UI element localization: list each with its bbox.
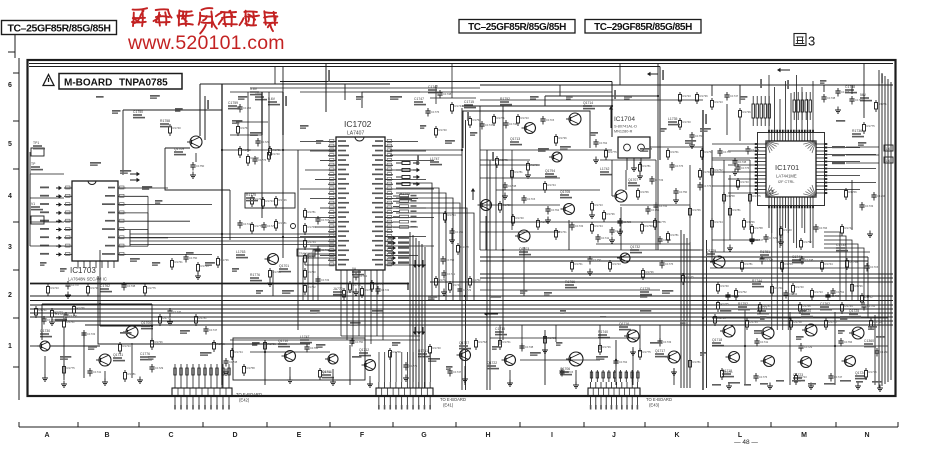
svg-text:R1775: R1775: [658, 220, 667, 224]
svg-text:R1736: R1736: [603, 345, 612, 349]
capacitor C1738: [799, 256, 813, 265]
svg-text:4: 4: [8, 193, 12, 200]
IC1701 labels: [775, 163, 799, 184]
svg-text:Q1731: Q1731: [113, 353, 123, 357]
microcontroller IC1701 QFP body: [758, 133, 825, 206]
transistor Q1794: [545, 152, 562, 177]
svg-text:C1762: C1762: [551, 208, 560, 212]
svg-text:R1744: R1744: [825, 262, 834, 266]
svg-text:LA7407: LA7407: [347, 131, 364, 137]
page number 48: [734, 439, 758, 446]
svg-text:R1752: R1752: [479, 340, 488, 344]
ground: [267, 280, 273, 287]
resistor R1736: [555, 134, 568, 146]
transistor Q1706: [560, 352, 583, 375]
transistor Q1710: [278, 339, 296, 362]
transistor Q1709: [174, 136, 202, 155]
svg-text:C1747: C1747: [209, 328, 218, 332]
svg-text:R1775: R1775: [686, 275, 695, 279]
resistor R1761: [171, 258, 184, 270]
transistor Q1700: [123, 321, 153, 338]
svg-text:R1752: R1752: [804, 240, 813, 244]
net label: [832, 146, 879, 148]
ground: [732, 169, 738, 176]
capacitor C1776: [425, 108, 439, 117]
resistor R1781: [304, 208, 317, 220]
ground: [835, 107, 841, 114]
title box TC-29GF85R/85G/85H: [585, 20, 701, 34]
capacitor C1733: [825, 292, 839, 301]
left ruler numbers: [8, 82, 12, 350]
conn1 riser resistor row: [174, 368, 230, 375]
capacitor C1741: [595, 234, 609, 243]
svg-text:R1723: R1723: [799, 375, 808, 379]
transistor Q1722: [487, 355, 516, 370]
resistor R1740: [449, 281, 462, 293]
ground: [749, 237, 755, 244]
resistor row with arrow: [396, 175, 420, 179]
resistor R1736: [73, 304, 86, 316]
svg-text:S-80741AL-D: S-80741AL-D: [614, 125, 637, 129]
svg-text:5: 5: [8, 141, 12, 148]
transistor Q1705: [560, 190, 575, 215]
svg-text:R1723: R1723: [683, 94, 692, 98]
capacitor C1776: [753, 373, 767, 382]
vertical micro labels on wires: [207, 70, 883, 165]
svg-text:C1762: C1762: [321, 248, 330, 252]
transistor Q1716: [619, 322, 639, 342]
resistor R1740: [435, 126, 448, 138]
bottom ruler line: [19, 422, 898, 427]
resistor R1723: [262, 197, 275, 209]
ground: [223, 369, 229, 376]
label R1736: [852, 129, 864, 137]
capacitor C1729: [149, 364, 163, 373]
ground: [545, 217, 551, 224]
svg-text:C1750: C1750: [695, 134, 704, 138]
resistor R1781: [195, 314, 208, 326]
capacitor C1766: [41, 316, 55, 325]
resistor R1761: [667, 148, 680, 160]
transistor Q1711: [322, 354, 338, 378]
svg-text:R1761: R1761: [418, 349, 428, 353]
schematic frame border: [28, 60, 896, 396]
svg-text:C1747: C1747: [755, 238, 764, 242]
svg-text:C1738: C1738: [827, 96, 836, 100]
svg-text:R1744: R1744: [323, 370, 332, 374]
svg-text:N: N: [864, 432, 869, 439]
resistor R1761: [269, 146, 282, 158]
connector E43 plug: [588, 382, 640, 410]
svg-text:C1729: C1729: [623, 220, 632, 224]
svg-text:R1781: R1781: [879, 102, 888, 106]
capacitor C1733: [649, 176, 663, 185]
ground: [190, 172, 196, 179]
svg-text:R1758: R1758: [393, 350, 402, 354]
svg-text:R1775: R1775: [148, 286, 157, 290]
top link wires: [345, 84, 462, 155]
right edge vertical bus: [879, 70, 891, 388]
svg-text:1-6: 1-6: [886, 147, 891, 151]
capacitor C1741: [861, 302, 875, 311]
svg-text:Q1707: Q1707: [628, 178, 638, 182]
resistor R1781: [511, 168, 524, 180]
bottom left loop wires: [30, 284, 152, 381]
capacitor C1750: [63, 312, 77, 321]
transistor Q1707: [612, 178, 640, 202]
svg-text:R1781: R1781: [745, 262, 754, 266]
resistor R1736: [851, 282, 864, 294]
svg-text:K: K: [674, 432, 679, 439]
svg-text:Q1732: Q1732: [630, 245, 640, 249]
capacitor C1776: [167, 308, 181, 317]
resistor R1761: [771, 284, 784, 296]
capacitor C1766: [645, 206, 659, 215]
resistor R1775: [863, 122, 876, 134]
resistor R1758: [723, 192, 736, 204]
svg-text:3: 3: [808, 34, 815, 49]
resistor R1781: [689, 358, 702, 370]
svg-text:R1761: R1761: [503, 340, 512, 344]
ground: [449, 237, 455, 244]
resistor R1752: [304, 283, 317, 295]
resistor R1723: [51, 308, 64, 320]
svg-text:R1766: R1766: [693, 208, 702, 212]
IC1702 bottom pin drops: [341, 270, 420, 344]
svg-text:R1736: R1736: [155, 340, 164, 344]
label R1723: [55, 312, 67, 320]
svg-text:R1776: R1776: [250, 273, 260, 277]
misc long verticals: [205, 64, 658, 386]
resistor R1736: [599, 343, 612, 355]
svg-text:R1766: R1766: [803, 304, 812, 308]
resistor R1761: [721, 368, 734, 380]
svg-text:R1758: R1758: [439, 278, 448, 282]
title box TC-25GF85R/85G/85H (left): [2, 21, 117, 35]
svg-text:R1775: R1775: [246, 193, 256, 197]
resistor R1752: [861, 293, 874, 305]
IC1704 ground: [631, 165, 637, 172]
resistor R1723: [544, 334, 557, 346]
resistor row with arrow: [396, 182, 420, 186]
capacitor C1750: [349, 338, 363, 347]
assorted interconnect wires: [45, 64, 868, 391]
resistor R1781: [729, 206, 742, 218]
capacitor C1715: [521, 195, 535, 204]
transistor Q1731: [96, 353, 125, 366]
capacitor C1738: [732, 158, 746, 167]
label C1360: [864, 339, 876, 347]
resistor R1740: [429, 344, 442, 356]
resistor R1740: [792, 283, 805, 295]
resistor comb: [752, 96, 770, 126]
svg-text:R1775: R1775: [867, 124, 876, 128]
ground: [287, 377, 293, 384]
svg-text:C1738: C1738: [805, 258, 814, 262]
svg-text:C1738: C1738: [127, 284, 136, 288]
svg-text:C1741: C1741: [601, 236, 610, 240]
resistor R1752: [237, 124, 250, 136]
extra parts mid-right band: [0, 0, 1, 1]
resistor R1766: [343, 288, 356, 300]
ground: [502, 193, 508, 200]
svg-text:R1744: R1744: [235, 350, 244, 354]
svg-text:L: L: [738, 432, 743, 439]
ground: [525, 172, 531, 179]
svg-text:R1744: R1744: [375, 282, 384, 286]
capacitor C1750: [440, 256, 454, 265]
IC1702 pins left: [328, 139, 349, 266]
svg-text:C1733: C1733: [381, 288, 390, 292]
transistor Q1717: [655, 349, 680, 363]
capacitor C1762: [830, 288, 844, 297]
resistor R1740: [737, 178, 750, 190]
svg-text:R1766: R1766: [308, 225, 317, 229]
svg-text:C1747: C1747: [71, 283, 80, 287]
capacitor C1776: [659, 260, 673, 269]
vertical wires right-center bundle: [681, 110, 707, 390]
resistor R1723: [119, 342, 132, 354]
connector E41 plug: [376, 382, 433, 410]
svg-text:R1752: R1752: [473, 278, 482, 282]
svg-text:C1729: C1729: [261, 140, 270, 144]
resistor R1775: [639, 348, 652, 360]
svg-text:R1761: R1761: [775, 286, 784, 290]
svg-text:R1723: R1723: [521, 116, 530, 120]
IC1702 left wires: [300, 142, 328, 266]
resistor R1781: [875, 100, 888, 112]
resistor R1758: [243, 364, 256, 376]
ground: [167, 319, 173, 326]
resistor R1758: [846, 258, 859, 270]
svg-text:R1744: R1744: [752, 279, 762, 283]
label L1747: [300, 335, 312, 343]
svg-text:R1736: R1736: [743, 110, 752, 114]
title box TC-25GF85R/85G/85H (center): [459, 20, 575, 34]
IC1703 pins left with arrows: [40, 186, 72, 257]
svg-text:R1736: R1736: [852, 129, 862, 133]
svg-text:— 48 —: — 48 —: [734, 439, 758, 446]
bus arrow left 2: [777, 68, 790, 72]
svg-text:Q1700: Q1700: [141, 321, 151, 325]
IC1702 right wires: [393, 142, 434, 266]
resistor R1744: [451, 102, 464, 114]
capacitor C1762: [315, 246, 329, 255]
svg-text:M: M: [801, 432, 807, 439]
resistor R1766: [264, 340, 277, 352]
capacitor C1729: [763, 234, 777, 243]
top bus wire 3: [280, 82, 612, 138]
svg-text:C1766: C1766: [243, 106, 252, 110]
svg-text:R1761: R1761: [497, 116, 506, 120]
svg-text:C1750: C1750: [133, 110, 143, 114]
label C1715: [464, 100, 476, 108]
svg-text:C1762: C1762: [820, 302, 830, 306]
label C1741: [792, 255, 804, 263]
ground: [867, 231, 873, 238]
label C1733: [836, 243, 848, 251]
resistor R1761: [251, 195, 264, 207]
svg-text:C1750: C1750: [880, 350, 889, 354]
ground: [42, 375, 48, 382]
svg-text:L1747: L1747: [430, 157, 440, 161]
svg-text:C1729: C1729: [155, 366, 164, 370]
capacitor C1776: [252, 156, 266, 165]
svg-text:C1766: C1766: [844, 340, 853, 344]
parts right-middle gap: [712, 160, 760, 240]
svg-text:R1766: R1766: [273, 270, 282, 274]
svg-text:G: G: [421, 432, 427, 439]
resistor R1723: [679, 92, 692, 104]
resistor R1744: [711, 218, 724, 230]
capacitor C1729: [261, 222, 275, 231]
net label: [832, 154, 879, 156]
capacitor C1715: [725, 292, 739, 301]
label R1781: [760, 250, 772, 258]
capacitor C1747: [203, 326, 217, 335]
svg-text:R1723: R1723: [266, 199, 275, 203]
svg-text:C1747: C1747: [414, 97, 424, 101]
svg-text:R1736: R1736: [855, 284, 864, 288]
resistor R1761: [35, 306, 48, 318]
label E43: [646, 397, 672, 408]
net label: [832, 162, 879, 164]
svg-text:C1750: C1750: [593, 258, 602, 262]
svg-text:R1761: R1761: [175, 260, 184, 264]
resistor comb 2: [793, 92, 811, 120]
svg-text:C1733: C1733: [321, 278, 330, 282]
resistor R1723: [197, 262, 210, 274]
svg-text:R1740: R1740: [784, 228, 793, 232]
top bus wire 4: [480, 84, 893, 86]
IC1703 right pin wires: [126, 188, 212, 254]
label TP: [31, 162, 43, 170]
svg-text:C1776: C1776: [741, 166, 750, 170]
svg-text:R1723: R1723: [55, 310, 64, 314]
upper-right bus band: [430, 257, 893, 282]
svg-text:R1740: R1740: [796, 285, 805, 289]
svg-text:D: D: [232, 432, 237, 439]
capacitor C1738: [519, 343, 533, 352]
svg-text:C1747: C1747: [485, 123, 494, 127]
svg-text:C1729: C1729: [463, 288, 472, 292]
ground: [441, 289, 447, 296]
parts top gap 430-480: [430, 64, 476, 105]
svg-text:TRANSMIT: TRANSMIT: [299, 252, 313, 256]
svg-text:C1750: C1750: [69, 314, 78, 318]
subcircuit box: [245, 193, 295, 208]
capacitor C1729: [457, 286, 471, 295]
resistor R1775: [682, 273, 695, 285]
svg-text:F: F: [360, 432, 365, 439]
svg-text:R1775: R1775: [609, 150, 618, 154]
resistor R1766: [527, 161, 540, 173]
svg-text:R1758: R1758: [645, 224, 654, 228]
label L1735: [668, 117, 680, 125]
transistor Q1732: [617, 245, 642, 263]
ground: [877, 385, 883, 392]
resistor R1744: [821, 260, 834, 272]
capacitor C1762: [545, 206, 559, 215]
svg-text:R1744: R1744: [845, 304, 854, 308]
svg-text:Q1705: Q1705: [560, 190, 570, 194]
capacitor C1776: [697, 182, 711, 191]
resistor R1744: [371, 280, 384, 292]
wire cascade left of IC1702: [303, 246, 336, 300]
resistor R1740: [825, 318, 838, 330]
label E42: [236, 392, 262, 403]
label E41: [440, 397, 466, 408]
connector E42 plug: [172, 382, 232, 410]
svg-text:Q1713: Q1713: [510, 137, 520, 141]
svg-text:R1758: R1758: [160, 119, 170, 123]
transistor Q: [478, 200, 492, 211]
svg-text:TC–25GF85R/85G/85H: TC–25GF85R/85G/85H: [7, 23, 110, 35]
resistor R1736: [642, 268, 655, 280]
label V1: [31, 202, 43, 210]
svg-text:R1740: R1740: [721, 284, 730, 288]
svg-text:C1776: C1776: [759, 375, 768, 379]
capacitor C1733: [81, 330, 95, 339]
svg-text:R1761: R1761: [725, 370, 734, 374]
svg-text:C1733: C1733: [865, 204, 874, 208]
transistor Q1725: [849, 309, 864, 339]
svg-text:1: 1: [8, 343, 12, 350]
svg-text:R1775: R1775: [721, 302, 730, 306]
svg-text:C1762: C1762: [619, 360, 628, 364]
svg-text:R1736: R1736: [221, 258, 230, 262]
svg-text:R1736: R1736: [869, 370, 878, 374]
svg-text:C1715: C1715: [546, 118, 555, 122]
resistor R1781: [667, 231, 680, 243]
resistor R1744: [231, 348, 244, 360]
resistor R1775: [605, 148, 618, 160]
svg-text:R1761: R1761: [39, 308, 48, 312]
svg-text:R1752: R1752: [308, 285, 317, 289]
svg-text:R1740: R1740: [173, 126, 182, 130]
svg-text:R1736: R1736: [607, 212, 616, 216]
svg-text:R1740: R1740: [439, 128, 448, 132]
svg-text:MN1280-R: MN1280-R: [614, 130, 633, 134]
capacitor C1741: [653, 202, 667, 211]
transmit box: [297, 249, 315, 256]
resistor R1758: [435, 276, 448, 288]
svg-text:C1766: C1766: [47, 318, 56, 322]
ground: [855, 383, 861, 390]
svg-text:C1738: C1738: [738, 160, 747, 164]
ground: [507, 380, 513, 387]
svg-text:R1758: R1758: [247, 366, 256, 370]
label L1742: [600, 167, 612, 175]
extra parts lower-left corner: [0, 0, 1, 1]
resistor R1752: [469, 116, 482, 128]
bundle arrows down: [413, 260, 425, 335]
svg-text:Q1725: Q1725: [849, 309, 859, 313]
IC1703 label: [68, 266, 107, 282]
label R1761: [418, 349, 430, 357]
svg-text:TO E-BOARD: TO E-BOARD: [440, 397, 466, 402]
svg-text:C1762: C1762: [599, 141, 608, 145]
svg-text:IC1704: IC1704: [614, 116, 635, 123]
conn2 riser wires: [379, 352, 430, 382]
resistor R1775: [654, 218, 667, 230]
svg-text:Q1722: Q1722: [487, 361, 497, 365]
label R1752: [500, 97, 512, 105]
capacitor C1762: [353, 272, 367, 281]
left mid bus wires: [130, 234, 336, 245]
label C1759: [228, 101, 240, 109]
capacitor C1766: [304, 344, 318, 353]
